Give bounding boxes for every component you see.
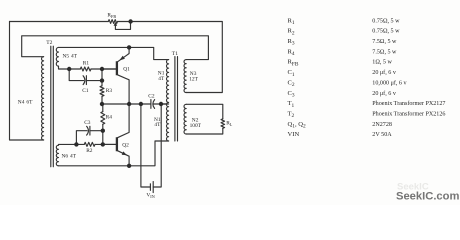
svg-text:C1: C1	[82, 88, 89, 94]
svg-text:R2: R2	[86, 148, 93, 154]
svg-text:10,000 μf, 6 v: 10,000 μf, 6 v	[372, 79, 407, 86]
svg-text:20 μf, 6 v: 20 μf, 6 v	[372, 69, 397, 76]
svg-text:4T: 4T	[158, 76, 165, 82]
svg-text:4T: 4T	[154, 122, 161, 128]
svg-text:12T: 12T	[189, 76, 198, 82]
svg-text:Q1: Q1	[123, 67, 130, 73]
svg-text:20 μf, 6 v: 20 μf, 6 v	[372, 90, 397, 97]
svg-text:T2: T2	[46, 40, 52, 46]
svg-text:RL: RL	[226, 120, 233, 127]
svg-text:VIN: VIN	[146, 192, 154, 199]
svg-text:2V 50A: 2V 50A	[372, 132, 392, 138]
svg-text:N6: N6	[62, 153, 69, 159]
svg-text:N4: N4	[18, 100, 25, 106]
svg-text:C2: C2	[148, 93, 155, 99]
svg-text:1Ω, 5 w: 1Ω, 5 w	[372, 60, 392, 66]
svg-text:7.5Ω, 5 w: 7.5Ω, 5 w	[372, 49, 397, 55]
svg-text:Phoenix Transformer PX2127: Phoenix Transformer PX2127	[372, 100, 445, 107]
svg-text:0.75Ω, 5 w: 0.75Ω, 5 w	[372, 29, 400, 35]
svg-text:R1: R1	[83, 61, 90, 67]
svg-text:100T: 100T	[190, 123, 202, 129]
svg-text:RFB: RFB	[107, 13, 116, 20]
svg-text:7.5Ω, 5 w: 7.5Ω, 5 w	[372, 39, 397, 45]
svg-text:VIN: VIN	[288, 131, 300, 138]
svg-text:4T: 4T	[71, 53, 78, 59]
svg-text:R4: R4	[106, 115, 113, 121]
svg-text:4T: 4T	[70, 153, 77, 159]
svg-text:R3: R3	[106, 88, 113, 94]
svg-text:0.75Ω, 5 w: 0.75Ω, 5 w	[372, 18, 400, 24]
svg-text:SeekIC: SeekIC	[397, 182, 429, 193]
svg-text:Q2: Q2	[122, 143, 129, 149]
svg-text:2N2728: 2N2728	[372, 122, 392, 128]
svg-text:6T: 6T	[26, 100, 33, 106]
svg-text:N5: N5	[63, 53, 70, 59]
svg-text:Phoenix Transformer PX2126: Phoenix Transformer PX2126	[372, 110, 445, 117]
svg-text:T1: T1	[172, 51, 178, 57]
svg-text:C3: C3	[84, 120, 91, 126]
